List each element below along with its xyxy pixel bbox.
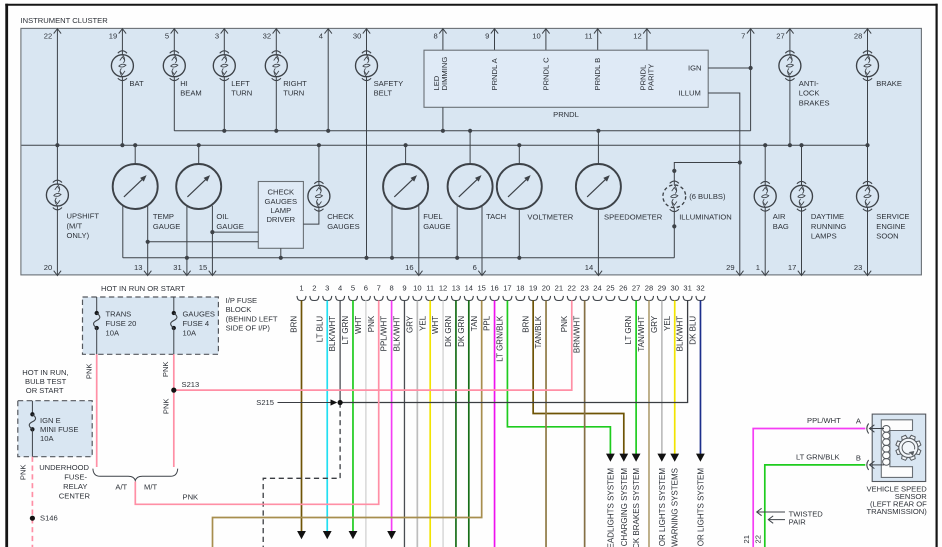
- svg-text:BRAKES: BRAKES: [799, 99, 830, 108]
- gauge FUEL: [383, 164, 428, 209]
- wire TEMP to driver: [148, 241, 259, 243]
- splice S213: [171, 388, 176, 393]
- svg-text:SERVICE: SERVICE: [876, 212, 909, 221]
- wire BAT to gauge bus: [121, 77, 123, 146]
- system arrow TO HEADLIGHTS SYSTEM: [606, 454, 615, 462]
- svg-text:25: 25: [606, 284, 614, 293]
- wire pin 1 BRN: [301, 300, 303, 531]
- svg-text:A/T: A/T: [115, 483, 127, 492]
- gauge TACH: [448, 164, 493, 209]
- svg-text:20: 20: [542, 284, 550, 293]
- wire pin 4 to IGN bus: [327, 28, 329, 130]
- svg-text:FUEL: FUEL: [423, 212, 442, 221]
- svg-text:TO EXTERIOR LIGHTS SYSTEM: TO EXTERIOR LIGHTS SYSTEM: [658, 468, 667, 547]
- splice S215: [338, 400, 343, 405]
- off-page arrow pin 5: [349, 531, 358, 539]
- svg-text:TO CHARGING SYSTEM: TO CHARGING SYSTEM: [620, 468, 629, 547]
- wire pin 6 WHT: [365, 300, 367, 547]
- gauge SPEEDOMETER: [576, 164, 621, 209]
- wire pin 30 YEL to warning: [674, 300, 676, 454]
- wire check gauges lamp to driver: [303, 207, 319, 224]
- VSS reluctor gear: [902, 455, 908, 460]
- svg-text:PNK: PNK: [18, 465, 27, 481]
- svg-text:22: 22: [44, 32, 52, 41]
- wire pin 8 PPL/WHT: [391, 300, 393, 531]
- svg-text:BLK/WHT: BLK/WHT: [328, 316, 337, 352]
- wire pin 9 BLK/WHT: [403, 300, 405, 547]
- svg-text:PNK: PNK: [161, 362, 170, 378]
- wire illumination branch: [674, 163, 740, 185]
- svg-text:15: 15: [477, 284, 485, 293]
- wire pin 4 dashed continuation: [263, 403, 340, 547]
- wire BRAKE to SERVICE ENGINE SOON: [867, 77, 869, 186]
- svg-text:PPL/WHT: PPL/WHT: [807, 416, 841, 425]
- svg-text:28: 28: [854, 32, 862, 41]
- wire IGN bus: [174, 130, 750, 132]
- svg-text:PNK: PNK: [367, 315, 376, 332]
- VSS coil: [883, 426, 890, 433]
- svg-text:23: 23: [854, 263, 862, 272]
- svg-text:22: 22: [754, 535, 763, 543]
- svg-text:BRN/WHT: BRN/WHT: [573, 316, 582, 353]
- wire PPL/WHT to VSS pin A: [753, 429, 865, 547]
- pin 17 bottom arrow: [798, 271, 805, 276]
- svg-text:DRIVER: DRIVER: [266, 215, 295, 224]
- svg-text:BAG: BAG: [773, 222, 789, 231]
- wire pin 27 to ANTI-LOCK: [789, 28, 791, 54]
- wire DRL to pin 17: [801, 207, 803, 275]
- wire pin 3 to LEFT TURN: [223, 28, 225, 54]
- svg-text:13: 13: [134, 263, 142, 272]
- svg-text:6: 6: [473, 263, 477, 272]
- wire TACH riser: [469, 131, 471, 164]
- lamp ILLUMINATION (6 bulbs): [663, 185, 686, 208]
- svg-text:LOCK: LOCK: [799, 89, 820, 98]
- off-page arrow pin 8: [387, 531, 396, 539]
- svg-text:GAUGE: GAUGE: [216, 222, 243, 231]
- svg-text:S146: S146: [40, 514, 58, 523]
- svg-text:YEL: YEL: [418, 315, 427, 331]
- svg-text:AIR: AIR: [773, 212, 786, 221]
- wire pin 20 TAN/BLK: [545, 300, 547, 547]
- svg-text:LEFT: LEFT: [231, 79, 250, 88]
- svg-text:TACH: TACH: [486, 212, 506, 221]
- wire pin 28 to BRAKE: [867, 28, 869, 54]
- svg-text:PRNDL: PRNDL: [553, 110, 579, 119]
- svg-text:15: 15: [199, 263, 207, 272]
- svg-text:31: 31: [173, 263, 181, 272]
- svg-text:24: 24: [593, 284, 601, 293]
- svg-text:SPEEDOMETER: SPEEDOMETER: [604, 213, 663, 222]
- svg-text:5: 5: [165, 32, 169, 41]
- wire PNK from TRANS fuse: [96, 354, 98, 467]
- svg-text:17: 17: [503, 284, 511, 293]
- vehicle speed sensor: [872, 414, 926, 481]
- wire DRL riser: [801, 145, 803, 185]
- pin 27 top arrow: [786, 29, 793, 34]
- fuse IGN E MINI FUSE 10A: [31, 401, 33, 415]
- wire pin 12 WHT: [442, 300, 444, 547]
- svg-text:BULB TEST: BULB TEST: [25, 377, 67, 386]
- pin 31 bottom arrow: [183, 271, 190, 276]
- svg-text:LAMPS: LAMPS: [811, 232, 837, 241]
- svg-text:GAUGES: GAUGES: [327, 222, 360, 231]
- svg-text:RIGHT: RIGHT: [283, 79, 307, 88]
- wire SES riser: [867, 184, 869, 186]
- svg-text:TRANSMISSION): TRANSMISSION): [866, 507, 927, 516]
- system arrow TO CHECK BRAKES SYSTEM: [632, 454, 641, 462]
- svg-text:HI: HI: [180, 79, 188, 88]
- svg-text:TAN/WHT: TAN/WHT: [637, 316, 646, 352]
- pin 28 top arrow: [864, 29, 871, 34]
- svg-text:BRN: BRN: [290, 316, 299, 333]
- lamp ANTI-LOCK BRAKES: [779, 55, 801, 77]
- pin 5 top arrow: [171, 29, 178, 34]
- system arrow TO WARNING SYSTEMS: [670, 454, 679, 462]
- svg-text:(BEHIND LEFT: (BEHIND LEFT: [226, 314, 278, 323]
- instrument cluster box: [21, 28, 922, 275]
- pin 22 top arrow: [54, 29, 61, 34]
- wire SAFETY BELT to ground bus: [366, 77, 368, 258]
- svg-text:LT GRN/BLK: LT GRN/BLK: [796, 452, 840, 461]
- wire OIL riser: [198, 145, 200, 164]
- system arrow TO CHARGING SYSTEM: [619, 454, 628, 462]
- lamp UPSHIFT: [46, 184, 68, 206]
- svg-text:RUNNING: RUNNING: [811, 222, 847, 231]
- pin 6 bottom arrow: [478, 271, 485, 276]
- svg-text:TRANS: TRANS: [106, 310, 132, 319]
- svg-text:11: 11: [426, 284, 434, 293]
- svg-text:TO WARNING SYSTEMS: TO WARNING SYSTEMS: [671, 468, 680, 547]
- wire PNK output to pin 7: [135, 300, 378, 504]
- svg-text:ENGINE: ENGINE: [876, 222, 905, 231]
- svg-text:TO EXTERIOR LIGHTS SYSTEM: TO EXTERIOR LIGHTS SYSTEM: [696, 468, 705, 547]
- wire VOLTMETER leg: [518, 209, 520, 258]
- svg-text:ILLUMINATION: ILLUMINATION: [679, 213, 732, 222]
- svg-text:22: 22: [568, 284, 576, 293]
- wire pin 10 GRY: [416, 300, 418, 547]
- pin 19 top arrow: [119, 29, 126, 34]
- fuse GAUGES FUSE 4 10A: [173, 297, 175, 313]
- svg-text:PNK: PNK: [84, 364, 93, 380]
- svg-text:5: 5: [351, 284, 355, 293]
- svg-text:BEAM: BEAM: [180, 89, 202, 98]
- svg-text:ANTI-: ANTI-: [799, 79, 819, 88]
- svg-text:CHECK: CHECK: [268, 188, 295, 197]
- pin 15 bottom arrow: [209, 271, 216, 276]
- svg-text:21: 21: [742, 535, 751, 543]
- wire pin 22 PNK from S213: [174, 300, 572, 390]
- wire HI BEAM to IGN bus: [173, 77, 175, 131]
- svg-text:32: 32: [263, 32, 271, 41]
- wire TEMP riser: [134, 145, 136, 164]
- svg-text:27: 27: [776, 32, 784, 41]
- svg-text:10: 10: [532, 32, 540, 41]
- wire AIR BAG riser: [764, 145, 766, 185]
- lamp BAT: [111, 55, 133, 77]
- wire OIL left leg to pin 31: [186, 206, 188, 275]
- wire ILLUM output to pin 29: [708, 93, 740, 275]
- check gauges lamp driver box U2: [258, 182, 303, 249]
- svg-text:TO HEADLIGHTS SYSTEM: TO HEADLIGHTS SYSTEM: [606, 468, 615, 547]
- wire gauge feed bus: [21, 144, 867, 146]
- svg-text:IGN: IGN: [688, 64, 702, 73]
- svg-text:LT GRN: LT GRN: [341, 316, 350, 345]
- svg-text:DAYTIME: DAYTIME: [811, 212, 844, 221]
- svg-text:LT BLU: LT BLU: [315, 316, 324, 343]
- lamp DAYTIME RUNNING LAMPS: [791, 185, 813, 207]
- svg-text:GAUGES: GAUGES: [183, 310, 216, 319]
- svg-text:FUSE-: FUSE-: [64, 472, 87, 481]
- svg-text:1: 1: [299, 284, 303, 293]
- wire PRNDL pin: [545, 28, 547, 50]
- svg-text:GAUGES: GAUGES: [265, 197, 298, 206]
- svg-text:10A: 10A: [40, 434, 54, 443]
- svg-text:10: 10: [413, 284, 421, 293]
- pin 30 top arrow: [363, 29, 370, 34]
- svg-text:20: 20: [44, 263, 52, 272]
- pin 13 bottom arrow: [144, 271, 151, 276]
- wire ground bus: [123, 257, 675, 259]
- svg-text:14: 14: [585, 263, 593, 272]
- wire pin 23 BRN/WHT: [584, 300, 586, 547]
- fuse TRANS FUSE 20 10A: [96, 297, 98, 313]
- svg-text:PARITY: PARITY: [647, 64, 656, 91]
- svg-text:DK BLU: DK BLU: [689, 316, 698, 345]
- svg-text:WHT: WHT: [354, 316, 363, 334]
- svg-text:13: 13: [452, 284, 460, 293]
- pin 8 top arrow: [439, 29, 446, 34]
- system arrow TO EXTERIOR LIGHTS SYSTEM: [657, 454, 666, 462]
- svg-text:DK GRN: DK GRN: [444, 316, 453, 347]
- wire FUEL left leg: [391, 205, 393, 258]
- svg-text:18: 18: [516, 284, 524, 293]
- junction dot OIL-driver: [210, 230, 214, 234]
- pin 23 bottom arrow: [864, 271, 871, 276]
- junction dots ground bus: [185, 256, 189, 260]
- wire FUEL riser: [405, 145, 407, 164]
- svg-text:DIMMING: DIMMING: [440, 57, 449, 91]
- svg-text:YEL: YEL: [663, 315, 672, 331]
- svg-text:7: 7: [741, 32, 745, 41]
- wire OIL right leg to pin 15: [211, 206, 213, 275]
- svg-text:19: 19: [529, 284, 537, 293]
- svg-text:6: 6: [364, 284, 368, 293]
- svg-text:PPL/WHT: PPL/WHT: [380, 316, 389, 352]
- wire ANTI-LOCK to gauge bus: [789, 77, 791, 146]
- lamp LEFT TURN: [213, 55, 235, 77]
- svg-text:I/P FUSE: I/P FUSE: [226, 296, 258, 305]
- wire IGN output: [708, 67, 750, 69]
- svg-text:10A: 10A: [106, 329, 120, 338]
- svg-text:8: 8: [389, 284, 393, 293]
- svg-text:TO CHECK BRAKES SYSTEM: TO CHECK BRAKES SYSTEM: [632, 468, 641, 547]
- svg-text:PRNDL A: PRNDL A: [490, 57, 499, 90]
- wire OIL to driver: [212, 231, 258, 233]
- junction dot IGN at pin 7: [749, 66, 753, 70]
- svg-text:30: 30: [353, 32, 361, 41]
- svg-text:BRAKE: BRAKE: [876, 79, 902, 88]
- wire pin 5 to HI BEAM: [173, 28, 175, 54]
- pin 9 top arrow: [491, 29, 498, 34]
- svg-text:14: 14: [465, 284, 473, 293]
- svg-text:BLK/WHT: BLK/WHT: [676, 316, 685, 352]
- wire pin 4 BLK/WHT to S215: [339, 300, 341, 402]
- svg-text:23: 23: [580, 284, 588, 293]
- off-page arrow pin 1: [297, 531, 306, 539]
- wire PRNDL pin: [494, 28, 496, 50]
- A/T M/T brace: [93, 469, 178, 481]
- svg-text:2: 2: [312, 284, 316, 293]
- svg-text:CHECK: CHECK: [327, 212, 354, 221]
- svg-text:UNDERHOOD: UNDERHOOD: [39, 463, 89, 472]
- svg-text:(6 BULBS): (6 BULBS): [689, 192, 726, 201]
- svg-text:HOT IN RUN OR START: HOT IN RUN OR START: [101, 284, 185, 293]
- PRNDL display box U1: [424, 50, 708, 107]
- wire pin 15 TAN: [213, 300, 482, 547]
- wire TEMP left leg to ground bus: [122, 205, 124, 257]
- svg-text:10A: 10A: [183, 329, 197, 338]
- wire pin 32 DK BLU to exterior lights: [699, 300, 701, 454]
- svg-text:PNK: PNK: [560, 315, 569, 332]
- svg-text:WHT: WHT: [431, 316, 440, 334]
- lamp HI BEAM: [163, 55, 185, 77]
- svg-text:PRNDL C: PRNDL C: [541, 57, 550, 91]
- svg-text:HOT IN RUN,: HOT IN RUN,: [22, 368, 68, 377]
- svg-text:17: 17: [788, 263, 796, 272]
- svg-text:32: 32: [696, 284, 704, 293]
- svg-text:21: 21: [555, 284, 563, 293]
- junction dots IGN bus: [222, 129, 226, 133]
- svg-text:GAUGE: GAUGE: [153, 222, 180, 231]
- wire TACH right leg to pin 6: [481, 205, 483, 275]
- wire TEMP right leg to pin 13: [147, 205, 149, 275]
- svg-text:19: 19: [109, 32, 117, 41]
- svg-text:LT GRN/BLK: LT GRN/BLK: [496, 315, 505, 362]
- wire PNK from GAUGES fuse: [173, 354, 175, 467]
- svg-text:30: 30: [671, 284, 679, 293]
- lamp SAFETY BELT: [356, 55, 378, 77]
- svg-text:9: 9: [485, 32, 489, 41]
- svg-text:4: 4: [338, 284, 342, 293]
- svg-text:MINI FUSE: MINI FUSE: [40, 425, 78, 434]
- svg-text:GRY: GRY: [650, 315, 659, 333]
- svg-text:(M/T: (M/T: [67, 221, 83, 230]
- lamp AIR BAG: [754, 185, 776, 207]
- svg-text:1: 1: [756, 263, 760, 272]
- junction dot TEMP-driver: [146, 240, 150, 244]
- lamp RIGHT TURN: [265, 55, 287, 77]
- svg-text:FUSE 20: FUSE 20: [106, 319, 137, 328]
- page border frame: [5, 4, 8, 547]
- wire VOLTMETER riser: [518, 145, 520, 164]
- pin 10 top arrow: [542, 29, 549, 34]
- wire pin 30 to SAFETY BELT: [366, 28, 368, 54]
- svg-text:12: 12: [439, 284, 447, 293]
- svg-text:BELT: BELT: [374, 89, 393, 98]
- svg-text:GAUGE: GAUGE: [423, 222, 450, 231]
- pin 29 bottom arrow: [736, 271, 743, 276]
- svg-text:7: 7: [377, 284, 381, 293]
- wire pin 19 BRN to charging: [533, 300, 624, 454]
- wire pin 7 / IGN drop: [750, 28, 752, 130]
- svg-text:VOLTMETER: VOLTMETER: [527, 213, 573, 222]
- svg-text:9: 9: [402, 284, 406, 293]
- wire LED DIMMING return: [442, 107, 444, 131]
- svg-text:OIL: OIL: [216, 212, 228, 221]
- pin 3 top arrow: [221, 29, 228, 34]
- wire SPEEDOMETER leg to pin 14: [597, 209, 599, 275]
- svg-text:4: 4: [319, 32, 323, 41]
- svg-text:28: 28: [645, 284, 653, 293]
- svg-text:RELAY: RELAY: [63, 482, 87, 491]
- wire pin 27 LT GRN to check brakes: [635, 300, 637, 454]
- wire LEFT TURN to IGN bus: [223, 77, 225, 131]
- wire pin 16 PPL: [494, 300, 496, 547]
- pin 12 top arrow: [643, 29, 650, 34]
- wire illumination lamp to ground bus: [673, 208, 675, 258]
- svg-text:LAMP: LAMP: [270, 206, 291, 215]
- svg-text:8: 8: [433, 32, 437, 41]
- wire UPSHIFT to pin 20: [56, 206, 58, 275]
- svg-text:B: B: [856, 454, 861, 463]
- svg-text:26: 26: [619, 284, 627, 293]
- svg-text:27: 27: [632, 284, 640, 293]
- svg-text:12: 12: [633, 32, 641, 41]
- svg-text:ILLUM: ILLUM: [678, 89, 700, 98]
- svg-text:TURN: TURN: [283, 89, 304, 98]
- svg-text:16: 16: [405, 263, 413, 272]
- off-page arrow pin 3: [323, 531, 332, 539]
- wire pin 19 to BAT: [121, 28, 123, 54]
- svg-text:S215: S215: [256, 398, 274, 407]
- gauge TEMP: [113, 164, 158, 209]
- svg-text:BLK/WHT: BLK/WHT: [393, 316, 402, 352]
- pin 14 bottom arrow: [595, 271, 602, 276]
- svg-text:BAT: BAT: [129, 79, 144, 88]
- svg-text:3: 3: [215, 32, 219, 41]
- svg-text:3: 3: [325, 284, 329, 293]
- wire pin 31 BLK/WHT S215 net: [340, 300, 687, 402]
- wire pin 29 GRY to exterior lights: [661, 300, 663, 454]
- wire pin 14 DK GRN: [468, 300, 470, 547]
- lamp BRAKE: [857, 55, 879, 77]
- lamp CHECK GAUGES: [308, 185, 330, 207]
- wire pin 17 LT GRN/BLK to headlights: [507, 300, 610, 454]
- wire check gauges riser: [318, 145, 320, 185]
- svg-text:S213: S213: [182, 380, 200, 389]
- svg-text:FUSE 4: FUSE 4: [183, 319, 210, 328]
- wire pin 13 DK GRN: [455, 300, 457, 547]
- svg-text:IGN E: IGN E: [40, 416, 61, 425]
- wire AIR BAG to pin 1: [764, 207, 766, 275]
- svg-text:TEMP: TEMP: [153, 212, 174, 221]
- wire PNK dashed to S146: [31, 457, 33, 547]
- svg-text:29: 29: [726, 263, 734, 272]
- svg-text:PNK: PNK: [183, 492, 199, 501]
- svg-text:PRNDL B: PRNDL B: [593, 58, 602, 91]
- pin 11 top arrow: [594, 29, 601, 34]
- svg-text:TAN/BLK: TAN/BLK: [534, 315, 543, 348]
- svg-text:29: 29: [658, 284, 666, 293]
- wire pin 28 TAN/WHT: [648, 300, 650, 547]
- wire PRNDL pin: [646, 28, 648, 50]
- wire driver to ground bus: [280, 248, 282, 257]
- wire pin 5 LT GRN: [352, 300, 354, 531]
- svg-text:GRY: GRY: [405, 315, 414, 333]
- pin 1 bottom arrow: [762, 271, 769, 276]
- svg-text:INSTRUMENT CLUSTER: INSTRUMENT CLUSTER: [21, 16, 109, 25]
